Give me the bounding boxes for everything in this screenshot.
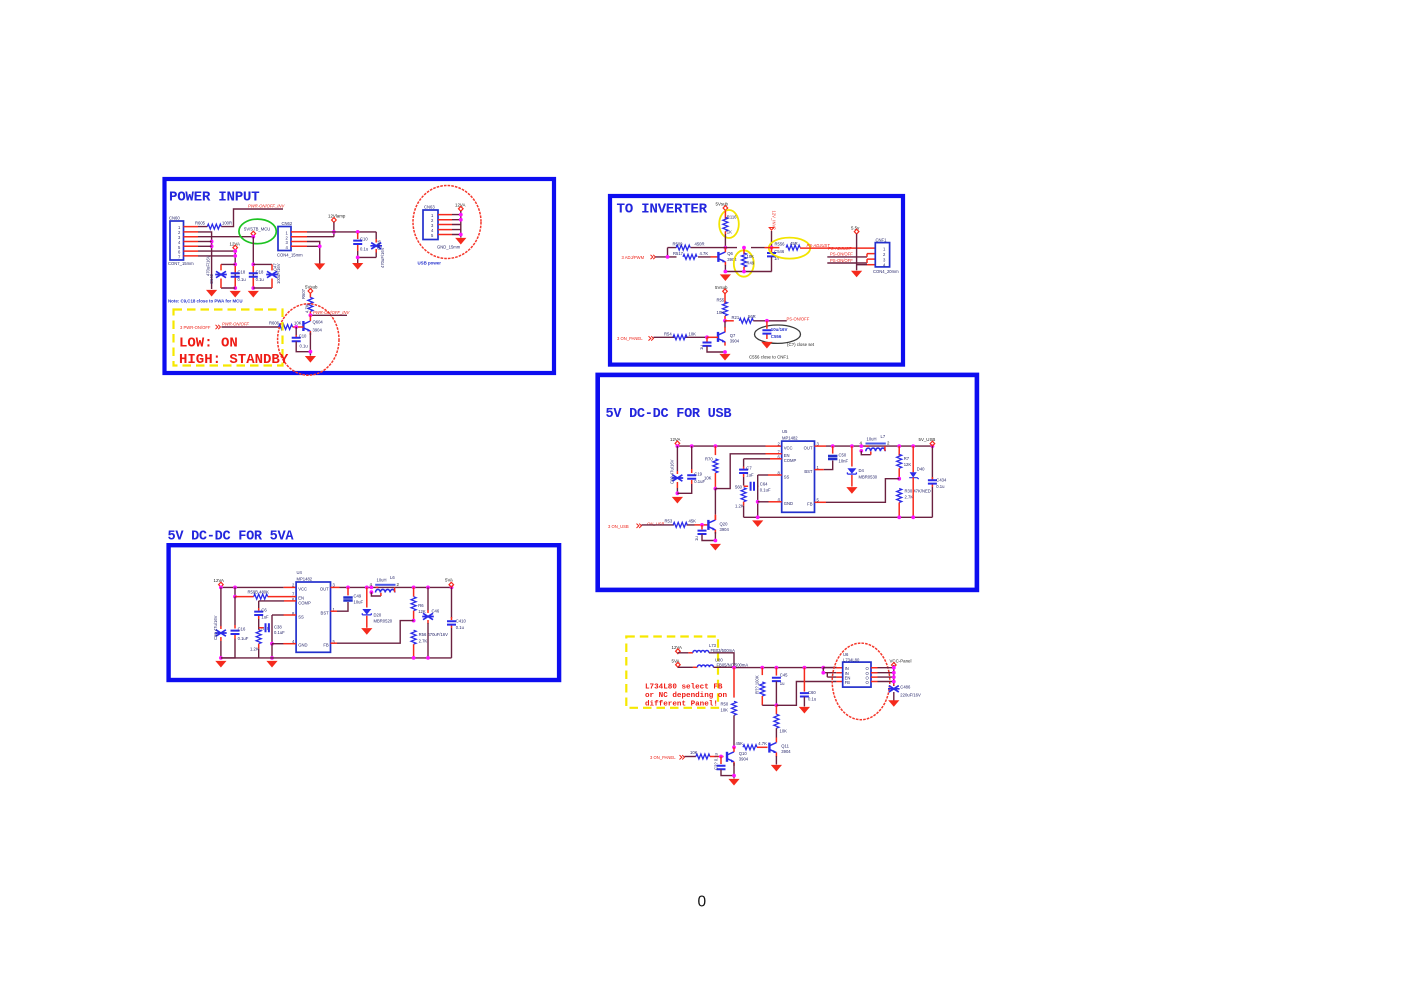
wire GND trace (U4): [272, 643, 284, 645]
capacitor C546 1n: [767, 248, 785, 272]
svg-text:R116: R116: [727, 215, 737, 220]
power port 5Vsub (Q604): [305, 285, 318, 294]
power port 12VA (CN63): [455, 203, 465, 212]
wire CN63 pins to 12VA: [452, 215, 461, 235]
svg-text:10u/16V: 10u/16V: [771, 327, 788, 332]
ground Q6: [720, 274, 731, 281]
capacitor C49 10uF bootstrap: [331, 587, 364, 611]
svg-text:45K: 45K: [736, 741, 744, 746]
wire CN63 pin stubs: [438, 215, 452, 235]
svg-text:0.1u: 0.1u: [936, 484, 945, 489]
svg-text:3 ADJ/PWM: 3 ADJ/PWM: [622, 255, 645, 260]
resistor R49 10K: [742, 248, 755, 272]
svg-text:0: 0: [698, 894, 707, 911]
svg-text:MP1482: MP1482: [782, 435, 798, 440]
wire pin5: [198, 245, 212, 247]
capacitor C6 1uF: [254, 601, 269, 620]
svg-text:GND_15mm: GND_15mm: [437, 244, 461, 249]
svg-text:D20: D20: [374, 613, 382, 618]
resistor R6 12K: [411, 587, 426, 620]
svg-text:TO INVERTER: TO INVERTER: [617, 202, 708, 218]
connector CN62: [277, 221, 303, 258]
wire 12VA to L73: [678, 652, 689, 655]
svg-text:10K: 10K: [689, 331, 697, 336]
resistor R606: [269, 321, 302, 330]
svg-text:450R: 450R: [695, 242, 705, 247]
svg-text:C64: C64: [760, 482, 768, 487]
svg-text:3904: 3904: [720, 527, 730, 532]
svg-text:CN62: CN62: [282, 221, 293, 226]
svg-text:3904: 3904: [313, 328, 323, 333]
resistor R7 12K: [897, 446, 912, 479]
svg-text:0.1u: 0.1u: [808, 697, 817, 702]
svg-text:4.7K: 4.7K: [700, 251, 709, 256]
capacitor C18 0.1u: [231, 266, 247, 287]
svg-text:CON7_15mm: CON7_15mm: [168, 261, 194, 266]
annotation ellipse C556: [755, 325, 801, 343]
svg-text:C434: C434: [936, 478, 947, 483]
svg-text:3 ON_PANEL: 3 ON_PANEL: [650, 755, 676, 760]
capacitor C19 0.1uF: [677, 446, 705, 493]
wire Q20 collector: [714, 489, 716, 515]
svg-text:C556: C556: [771, 334, 782, 339]
svg-text:C10: C10: [360, 237, 368, 242]
power port 12VA: [230, 241, 240, 250]
svg-text:1u: 1u: [699, 345, 704, 350]
resistor R50 10K (panel): [721, 668, 737, 748]
svg-text:1uF: 1uF: [746, 473, 754, 478]
svg-text:45R: 45R: [790, 241, 798, 246]
svg-text:C7: C7: [746, 466, 752, 471]
wire bottom rail (U5): [744, 516, 933, 518]
svg-text:COMP: COMP: [784, 458, 797, 463]
svg-text:MP1482: MP1482: [297, 576, 313, 581]
resistor R? 10K above Q11: [774, 705, 787, 742]
resistor R49 1.2K (U4): [250, 619, 270, 658]
input port 3 ON_PANEL: [617, 336, 654, 341]
svg-text:R30 47K/NED: R30 47K/NED: [905, 489, 931, 494]
svg-text:5V DC-DC FOR USB: 5V DC-DC FOR USB: [606, 407, 732, 422]
ground C10: [352, 263, 363, 270]
resistor R? 10K (Q10 base): [690, 750, 724, 759]
svg-text:ON_USB: ON_USB: [647, 521, 664, 526]
svg-text:L7: L7: [881, 434, 886, 439]
wire OUT rail (U4): [331, 586, 340, 588]
wire COMP trace (U4): [259, 600, 284, 602]
wire CN60 pin stubs: [184, 227, 199, 256]
svg-text:R556: R556: [775, 242, 786, 247]
wire SS trace: [758, 474, 769, 476]
resistor R605: [195, 221, 232, 230]
power port 12VA (panel): [672, 645, 682, 654]
wire FB trace (U4): [337, 621, 414, 644]
capacitor C7 1u (Q7 base): [699, 337, 725, 352]
svg-text:C50: C50: [839, 453, 847, 458]
svg-text:R6: R6: [418, 603, 424, 608]
wire 5VA to L80: [678, 666, 693, 668]
svg-text:10uF: 10uF: [354, 600, 364, 605]
capacitor C64 0.1uF: [744, 482, 771, 493]
svg-text:Q7: Q7: [730, 333, 736, 338]
wire R100K to node: [762, 704, 776, 706]
ground Q10: [728, 779, 739, 786]
svg-text:PWR-ON/OFF_INV: PWR-ON/OFF_INV: [313, 310, 350, 315]
svg-text:C556 close to CNF1: C556 close to CNF1: [749, 354, 789, 359]
svg-text:2.7K: 2.7K: [419, 639, 428, 644]
capacitor C46 220uF electrolytic: [422, 587, 440, 658]
ground C556: [761, 342, 772, 349]
ground Q11: [771, 765, 782, 772]
wire R116 to junction: [724, 234, 726, 248]
wire Q20 emitter: [714, 532, 716, 541]
svg-text:10K: 10K: [690, 750, 698, 755]
svg-text:10K: 10K: [294, 321, 302, 326]
capacitor C47 electrolytic: [266, 263, 281, 288]
svg-text:C410: C410: [456, 619, 467, 624]
svg-text:BST: BST: [321, 611, 330, 616]
resistor R54 10K: [664, 331, 696, 339]
svg-text:C19: C19: [694, 472, 702, 477]
svg-text:VCC-Panel: VCC-Panel: [890, 659, 912, 664]
resistor R? 560/1.2K: [735, 477, 746, 517]
svg-text:12VA: 12VA: [670, 437, 680, 442]
input port 3 ON_USB: [608, 524, 642, 529]
annotation box select FB/NC: [626, 637, 718, 708]
capacitor C10 0.1u: [353, 233, 369, 252]
svg-text:O: O: [866, 680, 870, 685]
svg-text:POWER INPUT: POWER INPUT: [169, 190, 260, 206]
svg-text:10uH: 10uH: [377, 578, 387, 583]
svg-text:45K: 45K: [689, 519, 697, 524]
svg-text:CNF1: CNF1: [876, 237, 888, 242]
svg-text:4.7K: 4.7K: [305, 304, 310, 313]
IC U6 regulator: [843, 652, 871, 687]
svg-text:3904: 3904: [730, 339, 740, 344]
svg-text:0.1u: 0.1u: [256, 277, 265, 282]
wire COMP trace: [744, 458, 770, 460]
resistor R30 2.7K: [897, 489, 931, 518]
inductor L7 10uH: [859, 434, 890, 455]
svg-text:560: 560: [735, 485, 743, 490]
svg-text:100R: 100R: [222, 221, 232, 226]
resistor R116 1K: [723, 210, 737, 234]
svg-text:OUT: OUT: [320, 587, 329, 592]
annotation ellipse 5V/STB_MCU: [239, 219, 276, 244]
svg-text:R21: R21: [732, 315, 740, 320]
svg-text:U6: U6: [843, 652, 849, 657]
ground Q20: [710, 544, 721, 551]
svg-text:SS: SS: [298, 615, 304, 620]
capacitor C486 220uF electrolytic: [888, 684, 921, 701]
annotation circle USB power: [413, 186, 481, 259]
wire emitter gnd rail: [725, 265, 771, 272]
svg-text:FB: FB: [323, 643, 329, 648]
diode D20 MBR0520: [362, 587, 392, 627]
svg-text:C16: C16: [238, 627, 246, 632]
svg-text:R50: R50: [721, 702, 729, 707]
capacitor C60 47u/16V electrolytic: [670, 446, 684, 493]
svg-text:PWR-ON/OFF: PWR-ON/OFF: [222, 321, 249, 326]
annotation circle Q604: [278, 304, 339, 375]
svg-text:7: 7: [292, 592, 295, 597]
power port 5V_USB: [919, 437, 936, 446]
wire row1 base rail: [668, 247, 765, 249]
capacitor C7 1uF: [739, 459, 754, 478]
svg-text:C60 47u/16V: C60 47u/16V: [213, 615, 218, 640]
svg-text:PWR-ON/OFF_INV: PWR-ON/OFF_INV: [248, 204, 285, 209]
power port 5VA (panel): [672, 659, 681, 668]
wire emitter to gnd rail: [309, 333, 311, 356]
wire pin3 to 5V/STB_MCU: [198, 236, 253, 238]
svg-text:1: 1: [883, 247, 886, 252]
wire CNF1 pin4: [857, 264, 867, 266]
power port INV vertical label: [769, 211, 776, 231]
ground CN62: [314, 263, 325, 270]
sheet frame POWER INPUT: [165, 179, 555, 373]
power port 5Vsub (Q7): [715, 285, 728, 294]
wire row1 to CNF1 pin1: [800, 247, 875, 249]
wire main 5V panel rail: [713, 666, 836, 668]
svg-text:2: 2: [397, 582, 400, 587]
power port 5VA (U4): [445, 578, 454, 587]
capacitor C60 47u/16V electrolytic (U4): [213, 587, 227, 658]
svg-text:3 PWR-ON/OFF: 3 PWR-ON/OFF: [180, 325, 211, 330]
wire CN63 12VA drop: [460, 211, 462, 238]
resistor R21 56R: [725, 314, 756, 323]
svg-text:C60 47u/16V: C60 47u/16V: [670, 459, 675, 484]
ground 12VA cap bank: [230, 291, 241, 298]
resistor R59B 480K: [235, 590, 296, 600]
svg-text:1uF: 1uF: [261, 615, 269, 620]
svg-text:3 ON_PANEL: 3 ON_PANEL: [617, 336, 643, 341]
ground Q604: [305, 356, 316, 363]
svg-text:3 ON_USB: 3 ON_USB: [608, 524, 629, 529]
svg-text:1.2K: 1.2K: [735, 504, 744, 509]
capacitor C410 0.1u: [447, 587, 466, 658]
power port VCC-Panel: [890, 659, 912, 668]
svg-text:0.1uF: 0.1uF: [238, 636, 249, 641]
svg-text:L734L80: L734L80: [843, 657, 860, 662]
svg-text:VCC: VCC: [298, 587, 307, 592]
svg-text:CN60: CN60: [169, 216, 180, 221]
svg-text:MBR0530: MBR0530: [859, 475, 878, 480]
svg-text:10K: 10K: [747, 254, 755, 259]
svg-text:470uF/16V: 470uF/16V: [380, 247, 385, 268]
ground U4: [266, 661, 277, 668]
ground C60 (U4): [215, 661, 226, 668]
capacitor C10 (Q604 base): [292, 327, 311, 352]
svg-text:0.1uF: 0.1uF: [274, 630, 285, 635]
transistor Q20: [695, 515, 730, 534]
capacitor C38 0.1uF: [259, 623, 285, 635]
svg-text:12VA: 12VA: [214, 578, 224, 583]
wire ON_PANEL input: [654, 336, 708, 338]
svg-text:PS-ON/OFF: PS-ON/OFF: [830, 258, 853, 263]
sheet frame 5V DC-DC FOR USB: [598, 375, 977, 590]
svg-text:2: 2: [883, 252, 886, 257]
svg-text:R54: R54: [664, 331, 672, 336]
svg-text:L734L80 select FB: L734L80 select FB: [645, 684, 723, 692]
svg-text:CON4_20mm: CON4_20mm: [873, 269, 899, 274]
svg-text:12Vlamp: 12Vlamp: [328, 214, 346, 219]
wire STB rail down: [252, 237, 254, 288]
svg-text:5Vsub: 5Vsub: [716, 201, 729, 206]
capacitor C640 electrolytic: [206, 255, 227, 288]
svg-text:R509: R509: [673, 242, 684, 247]
svg-text:10K: 10K: [780, 729, 788, 734]
wire OUT rail: [815, 445, 827, 447]
svg-text:R517: R517: [673, 251, 684, 256]
svg-text:D4: D4: [859, 468, 865, 473]
svg-text:Q604: Q604: [313, 320, 324, 325]
svg-text:R?? 100K: R?? 100K: [754, 675, 759, 694]
wire VCC rail (U4): [221, 586, 284, 589]
svg-text:R53: R53: [665, 519, 673, 524]
connector CN63: [423, 205, 461, 250]
resistor R53 45K: [665, 519, 697, 528]
svg-text:U5: U5: [782, 429, 788, 434]
svg-text:1.2K: 1.2K: [250, 647, 259, 652]
wire R21 to PS-ON/OFF: [753, 320, 786, 322]
wire FB trace (panel): [776, 682, 836, 706]
transistor Q604: [303, 315, 323, 335]
wire row2 to CNF1 pin2: [827, 256, 867, 258]
capacitor C? 0.1u (Q10 base): [713, 752, 734, 775]
svg-text:C640: C640: [209, 273, 214, 284]
capacitor C50 10nF bootstrap: [815, 446, 849, 470]
capacitor C434 0.1u: [928, 446, 947, 517]
wire collector node: [310, 314, 347, 316]
wire EN trace: [715, 454, 765, 489]
svg-text:5V/STB_MCU: 5V/STB_MCU: [244, 227, 270, 232]
svg-text:3904: 3904: [727, 257, 737, 262]
svg-text:2.7K: 2.7K: [905, 495, 914, 500]
capacitor C16 0.1uF: [221, 597, 249, 658]
ground CN63: [455, 238, 466, 245]
wire CN62 pin4: [307, 246, 320, 263]
svg-text:7: 7: [178, 255, 181, 260]
svg-text:R607: R607: [301, 288, 306, 299]
svg-text:FB: FB: [845, 680, 851, 685]
ground C60: [672, 497, 683, 504]
ground pin2 bus: [206, 290, 217, 297]
wire VCC-Panel rail: [893, 665, 895, 686]
wire CN62 pin stubs: [291, 232, 307, 246]
capacitor C45 1u: [772, 668, 788, 706]
annotation ellipse R49: [734, 250, 754, 276]
svg-text:Q11: Q11: [781, 744, 789, 749]
resistor R70 10K: [704, 446, 718, 489]
wire row3 to CNF1 pin3: [827, 262, 867, 264]
svg-text:C18: C18: [238, 270, 246, 275]
IC U4 MP1482: [292, 570, 336, 653]
ground D20: [361, 628, 372, 635]
annotation box LOW/HIGH: [174, 310, 283, 366]
wire U6 output pins: [871, 668, 878, 682]
ground D4: [846, 487, 857, 494]
resistor R? 100K: [754, 668, 765, 706]
svg-text:0.1u: 0.1u: [300, 344, 309, 349]
wire ON_USB input: [642, 524, 695, 526]
svg-text:LOW: ON: LOW: ON: [179, 336, 238, 352]
svg-text:56R: 56R: [748, 314, 756, 319]
resistor R517 4.7K: [673, 251, 708, 260]
capacitor C646 electrolytic: [370, 232, 385, 268]
connector CNF1: [873, 237, 899, 273]
svg-text:GND: GND: [298, 643, 307, 648]
svg-text:C60: C60: [808, 690, 816, 695]
capacitor C18b 0.1u: [249, 266, 265, 287]
wire FB trace: [826, 479, 899, 503]
junction pins 4,5: [210, 240, 214, 244]
svg-text:C?? 0.1u: C?? 0.1u: [713, 752, 718, 770]
sheet frame TO INVERTER: [610, 196, 903, 365]
wire CN62 pin2: [307, 236, 334, 238]
svg-text:C546: C546: [774, 249, 785, 254]
wire EN drop: [234, 587, 236, 596]
wire U6 input pins: [823, 668, 836, 678]
input port 3 ON_PANEL (panel): [650, 755, 685, 760]
svg-text:Q20: Q20: [720, 522, 729, 527]
svg-text:4.7K: 4.7K: [758, 741, 767, 746]
power port 12VA (U4): [214, 578, 224, 587]
wire pin1 to PWR-ON/OFF_INV: [198, 209, 283, 227]
svg-text:SS: SS: [784, 474, 790, 479]
svg-text:3904: 3904: [739, 757, 749, 762]
svg-text:COMP: COMP: [298, 601, 311, 606]
svg-text:R70: R70: [705, 457, 713, 462]
transistor Q6: [711, 248, 738, 266]
power port 5V/STB_MCU node: [251, 231, 256, 236]
ground STB cap bank: [248, 291, 259, 298]
note L734L80 select: [645, 684, 727, 709]
svg-text:10K: 10K: [717, 310, 725, 315]
svg-text:3904: 3904: [781, 749, 791, 754]
svg-text:OUT: OUT: [804, 445, 813, 450]
svg-text:C6: C6: [261, 608, 267, 613]
svg-text:C10: C10: [299, 334, 307, 339]
wire pin4: [198, 241, 212, 243]
svg-text:HIGH: STANDBY: HIGH: STANDBY: [179, 352, 289, 368]
svg-text:L6: L6: [390, 575, 395, 580]
svg-text:R605: R605: [195, 221, 206, 226]
wire loop A rails: [221, 264, 235, 288]
svg-text:0.1u: 0.1u: [456, 625, 465, 630]
transistor Q11: [769, 743, 791, 757]
svg-text:different Panel!: different Panel!: [645, 701, 718, 709]
inductor L73 FB03/500mA: [693, 643, 735, 653]
svg-text:0.1u: 0.1u: [238, 277, 247, 282]
wire C10 bottom rail: [358, 251, 377, 263]
svg-text:220uF/16V: 220uF/16V: [900, 692, 921, 697]
wire Q10 emitter: [733, 763, 735, 779]
svg-text:2: 2: [887, 441, 890, 446]
resistor R556 45R: [765, 241, 801, 250]
inductor L6 10uH: [370, 575, 400, 596]
inductor L80 FB05/NC/500mA: [697, 658, 748, 668]
svg-text:C45: C45: [780, 672, 788, 677]
input port 3 ADJ/PWM: [622, 255, 656, 260]
svg-text:C18: C18: [256, 270, 264, 275]
power port 12VA (U5): [670, 437, 680, 446]
wire Q11 emitter: [775, 756, 777, 765]
svg-text:GND: GND: [784, 501, 793, 506]
ground Q7: [719, 354, 730, 361]
svg-text:MBR0520: MBR0520: [374, 619, 393, 624]
power port 5.5V: [851, 225, 860, 234]
svg-text:PS-ADJUST: PS-ADJUST: [828, 246, 852, 251]
svg-text:4: 4: [286, 245, 289, 250]
